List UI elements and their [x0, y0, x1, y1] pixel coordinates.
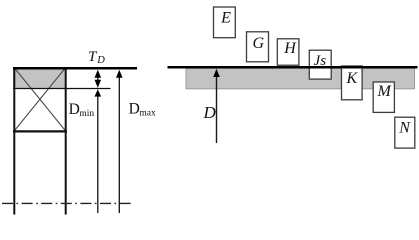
diagonal cross stroke 1	[15, 68, 66, 131]
svg-text:D: D	[202, 103, 216, 122]
svg-text:D: D	[129, 101, 140, 118]
cross-section box bottom edge	[13, 130, 67, 132]
svg-text:min: min	[79, 109, 94, 119]
diagonal cross stroke 2	[15, 68, 66, 131]
svg-text:E: E	[220, 9, 231, 26]
tolerance box H	[277, 39, 299, 65]
svg-text:max: max	[139, 108, 156, 118]
part outline right vertical line	[65, 67, 67, 215]
svg-text:N: N	[398, 120, 411, 137]
zero line (nominal diameter line)	[168, 66, 418, 69]
tolerance box G	[247, 32, 269, 62]
svg-text:H: H	[283, 40, 297, 57]
T_D arrowhead down	[95, 80, 102, 88]
D_max dimension line shaft	[118, 72, 120, 213]
D arrowhead	[213, 69, 220, 77]
svg-text:D: D	[96, 55, 105, 66]
D_max arrowhead up	[116, 70, 123, 78]
right figure: gray tolerance band below zero line	[186, 68, 415, 89]
part outline left vertical line	[13, 67, 15, 215]
D_max level top line	[13, 67, 137, 70]
dash-dot centerline	[2, 202, 131, 204]
D arrow shaft	[216, 76, 218, 143]
left figure: hole tolerance band (gray) inside part cross-section	[13, 68, 66, 89]
D_min arrowhead up	[95, 89, 102, 96]
tolerance box M	[373, 82, 394, 112]
D_min dimension line shaft	[97, 91, 99, 213]
svg-text:K: K	[345, 70, 358, 87]
T_D arrowhead up	[95, 70, 102, 78]
D_min level line	[13, 88, 111, 90]
tolerance box E	[214, 7, 236, 38]
svg-text:M: M	[377, 83, 393, 100]
tolerance box Js	[309, 50, 331, 79]
tolerance box N	[395, 117, 415, 148]
T_D dimension double arrow shaft	[97, 72, 99, 84]
tolerance box K	[342, 66, 363, 100]
svg-text:G: G	[253, 35, 265, 52]
svg-text:D: D	[69, 101, 80, 118]
